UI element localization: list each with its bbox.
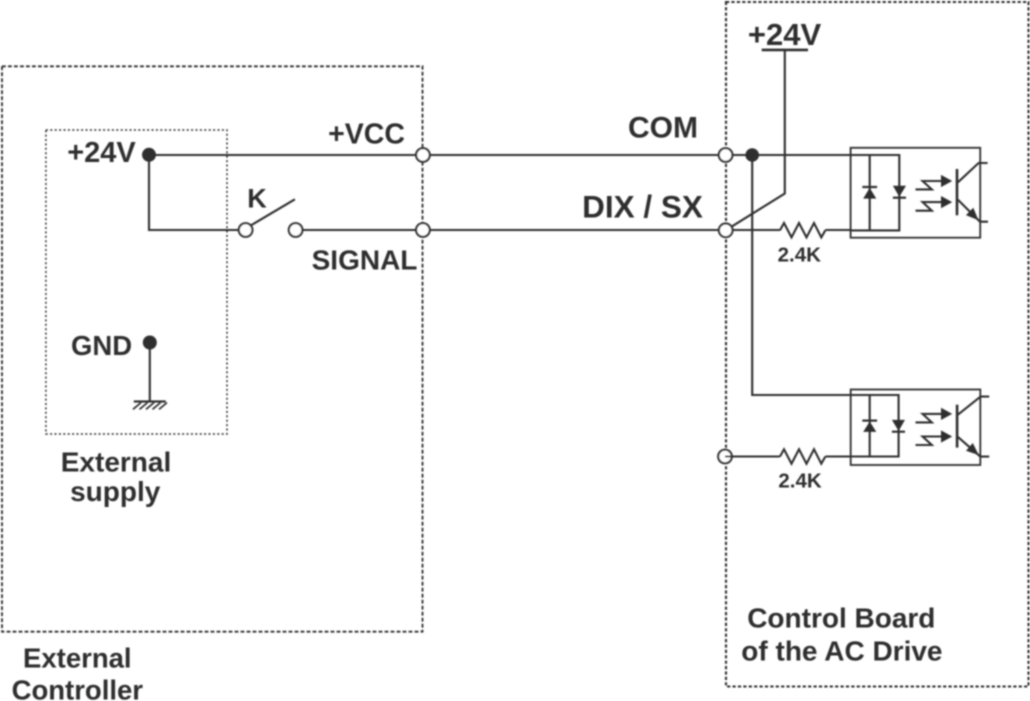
U1 LED D2 (down) xyxy=(893,186,906,198)
node +24V rail (control board) xyxy=(726,17,822,230)
svg-text:+24V: +24V xyxy=(67,137,136,169)
wire COM (+VCC to COM line) xyxy=(149,154,851,156)
label External supply xyxy=(61,447,172,507)
node GND xyxy=(71,330,157,361)
control board box xyxy=(726,2,1029,687)
label K xyxy=(247,184,267,214)
U2 light arrow 1 xyxy=(916,408,953,423)
svg-text:DIX / SX: DIX / SX xyxy=(582,189,703,225)
svg-text:GND: GND xyxy=(71,330,132,361)
wire SIGNAL to DIX/SX line xyxy=(296,229,851,231)
U1 LED D1 (up) xyxy=(862,187,877,199)
optocoupler U2 xyxy=(851,390,981,466)
terminal COM xyxy=(628,112,732,162)
external supply box xyxy=(46,130,227,434)
wire lower input to R2 xyxy=(725,455,851,457)
svg-text:External: External xyxy=(23,643,132,674)
svg-text:SIGNAL: SIGNAL xyxy=(312,245,418,276)
terminal lower input xyxy=(718,450,732,464)
optocoupler U1 xyxy=(851,148,981,238)
svg-text:Controller: Controller xyxy=(12,675,144,701)
terminal DIX / SX xyxy=(582,189,732,238)
svg-text:2.4K: 2.4K xyxy=(778,243,821,266)
svg-text:2.4K: 2.4K xyxy=(778,470,821,493)
svg-text:External: External xyxy=(61,447,172,478)
terminal SIGNAL xyxy=(312,223,430,275)
label External Controller xyxy=(12,643,144,701)
svg-text:supply: supply xyxy=(70,476,161,507)
U1 phototransistor Q1 xyxy=(957,163,988,222)
ground xyxy=(133,343,167,410)
svg-text:Control Board: Control Board xyxy=(747,603,935,634)
U1 light arrow 2 xyxy=(916,196,953,211)
U1 light arrow 1 xyxy=(916,175,953,190)
terminal +VCC xyxy=(328,119,430,162)
resistor R2 2.4K xyxy=(780,449,825,463)
svg-text:+24V: +24V xyxy=(748,17,822,52)
external controller box xyxy=(2,66,423,631)
wire +24V drop to switch xyxy=(149,155,246,230)
resistor R1 2.4K xyxy=(780,223,825,237)
label R2 value 2.4K xyxy=(778,470,821,493)
U2 phototransistor Q2 xyxy=(957,397,989,457)
svg-text:COM: COM xyxy=(628,112,698,145)
svg-text:of the AC Drive: of the AC Drive xyxy=(741,636,942,667)
U2 LED D4 (down) xyxy=(892,420,905,432)
junction dot COM xyxy=(745,148,759,162)
label R1 value 2.4K xyxy=(778,243,821,266)
svg-text:+VCC: +VCC xyxy=(328,119,405,151)
label Control Board of the AC Drive xyxy=(741,603,942,667)
svg-text:K: K xyxy=(247,184,267,214)
U2 LED D3 (up) xyxy=(862,421,877,432)
node +24V supply (left) xyxy=(67,137,156,169)
wire COM junction down to lower optocoupler xyxy=(752,155,851,395)
switch K terminals xyxy=(239,223,303,237)
switch K blade xyxy=(250,199,295,226)
U2 light arrow 2 xyxy=(916,430,953,445)
